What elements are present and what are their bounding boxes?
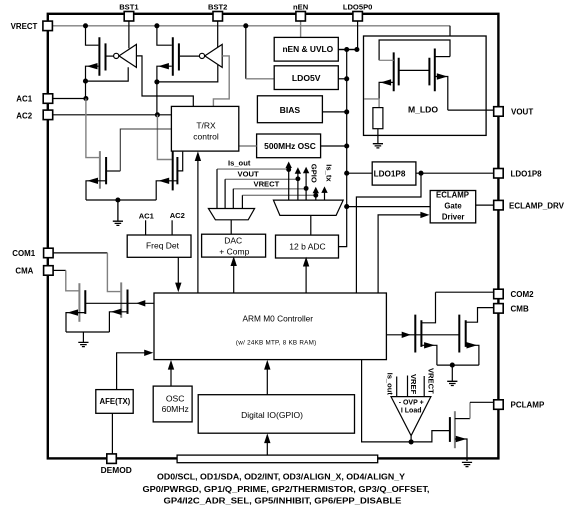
block DAC + Comp bbox=[202, 234, 266, 257]
wire OSC60 to ARM arrow bbox=[170, 365, 172, 386]
wire arrow A4 GPIO bbox=[315, 191, 317, 201]
transistor Q3 low-side AC1 FET bbox=[86, 151, 156, 200]
wire ARM to DAC arrow bbox=[233, 262, 235, 293]
svg-text:LDO1P8: LDO1P8 bbox=[374, 169, 406, 178]
node LDO1P8 out bbox=[418, 171, 423, 176]
wire AC2 bbox=[52, 114, 171, 116]
wire Q2 source to U2 rail bbox=[157, 65, 218, 82]
arrow into TRX bbox=[195, 151, 201, 161]
pin LDO1P8 bbox=[494, 169, 504, 179]
svg-text:LDO5V: LDO5V bbox=[292, 73, 321, 83]
wire ARM to COM2/CMB gates bbox=[386, 334, 459, 336]
node pair2 ground bbox=[450, 363, 455, 368]
ground pair bbox=[78, 342, 88, 346]
transistor Q5 M_LDO pass FET left bbox=[379, 52, 429, 99]
wire pair drains to ARM bbox=[85, 302, 154, 304]
svg-text:VRECT: VRECT bbox=[11, 22, 38, 31]
wire M_LDO feedback gray bbox=[364, 99, 379, 108]
wire LDO5P0 drop bbox=[338, 21, 357, 50]
svg-text:AFE(TX): AFE(TX) bbox=[100, 397, 131, 406]
wire Q1 source to U1 rail bbox=[86, 67, 129, 81]
wire Q2 source to AC2 bbox=[156, 82, 158, 115]
pin ECLAMP_DRV bbox=[494, 200, 504, 210]
wire arrow A1 bbox=[288, 165, 290, 200]
transistor Q4 low-side AC2 FET bbox=[156, 152, 183, 201]
svg-text:500MHz OSC: 500MHz OSC bbox=[264, 141, 316, 151]
wire R1 to ground bbox=[377, 129, 379, 144]
pin AC1 bbox=[43, 94, 53, 104]
wire DigIO to ARM arrow bbox=[266, 365, 268, 395]
block LDO1P8 bbox=[372, 162, 416, 185]
block AFE(TX) bbox=[96, 390, 133, 414]
block 500MHz OSC bbox=[257, 134, 321, 158]
block T/RX control bbox=[171, 106, 238, 151]
wire FreqDet stub1 bbox=[145, 220, 147, 235]
wire UVLO to bus bbox=[338, 49, 357, 51]
node comparator output bbox=[409, 439, 414, 444]
arrow Q1 source bbox=[87, 63, 98, 69]
mux2 trapezoid bbox=[273, 200, 343, 215]
svg-text:AC2: AC2 bbox=[16, 111, 32, 120]
pin BST2 bbox=[213, 12, 223, 22]
transistor Q2 high-side AC2 FET bbox=[157, 26, 200, 82]
pin PCLAMP bbox=[494, 400, 504, 410]
node bus-UVLO bbox=[344, 47, 349, 52]
svg-text:CMA: CMA bbox=[15, 267, 33, 276]
block BIAS bbox=[257, 96, 322, 123]
svg-text:Gate: Gate bbox=[444, 201, 462, 210]
wire CMA to Q7 gate gray bbox=[66, 270, 79, 290]
svg-text:Is_out: Is_out bbox=[228, 159, 251, 168]
wire VRECT rail bbox=[52, 25, 450, 27]
node bus-LDO5V bbox=[344, 76, 349, 81]
node AC1 bbox=[83, 96, 88, 101]
wire AC1 bbox=[52, 98, 86, 100]
wire U2 input to TRX gray bbox=[213, 56, 229, 107]
wire U3 input stub2 bbox=[407, 376, 409, 397]
wire COM1 bbox=[52, 252, 107, 254]
svg-text:DAC: DAC bbox=[224, 236, 242, 246]
block ECLAMP Gate Driver bbox=[430, 191, 476, 223]
arrow Q10 source bbox=[467, 342, 478, 348]
svg-text:DEMOD: DEMOD bbox=[101, 465, 132, 475]
ground PCLAMP bbox=[462, 462, 472, 466]
arrow on ARM drive line bbox=[136, 300, 145, 306]
wire U3 input stub1 bbox=[396, 377, 398, 397]
wire mux2 out to ADC bbox=[310, 215, 312, 235]
svg-text:12 b ADC: 12 b ADC bbox=[289, 242, 325, 252]
wire COM1 to Q8 gate gray bbox=[107, 253, 120, 292]
wire U3 output stem bbox=[410, 436, 412, 442]
block LDO5V bbox=[274, 66, 338, 90]
wire Q9 drain to COM2 pin bbox=[436, 291, 495, 293]
wire mux1 out to DAC bbox=[230, 220, 232, 235]
wire Is_out line bbox=[217, 168, 289, 170]
transistor Q10 CMB FET bbox=[459, 308, 494, 366]
svg-text:ECLAMP: ECLAMP bbox=[436, 191, 469, 200]
ground pair2 bbox=[447, 381, 457, 385]
svg-text:ARM M0 Controller: ARM M0 Controller bbox=[243, 314, 314, 324]
block Freq Det bbox=[127, 235, 191, 257]
transistor Q8 COM1 FET bbox=[109, 282, 127, 332]
svg-text:Freq Det: Freq Det bbox=[146, 240, 180, 250]
svg-text:LDO1P8: LDO1P8 bbox=[511, 169, 543, 178]
wire bus bar to DigIO arrow bbox=[266, 439, 268, 456]
svg-text:- OVP +: - OVP + bbox=[399, 399, 424, 406]
wire U1 input to TRX bbox=[136, 56, 193, 107]
svg-text:BST2: BST2 bbox=[208, 3, 227, 12]
svg-text:AC1: AC1 bbox=[139, 212, 155, 221]
wire AFE to DEMOD bbox=[111, 413, 113, 454]
pin BST1 bbox=[124, 12, 134, 22]
wire node to PCLAMP gate bbox=[411, 431, 449, 442]
svg-text:Digital IO(GPIO): Digital IO(GPIO) bbox=[241, 410, 303, 420]
wire nEN drop bbox=[300, 21, 302, 37]
svg-text:I Load: I Load bbox=[401, 408, 422, 415]
wire GPIO line bbox=[242, 194, 315, 196]
wire arrow A2 bbox=[297, 171, 299, 200]
wire LDO5V to bus bbox=[338, 78, 346, 80]
svg-text:VRECT: VRECT bbox=[254, 180, 280, 189]
node VRECT-leg2 bbox=[154, 23, 159, 28]
wire arrow A3 bbox=[305, 171, 307, 201]
pin CMB bbox=[494, 304, 504, 314]
node Q1 source bbox=[83, 79, 88, 84]
arrow Q9 source bbox=[424, 342, 435, 348]
arrow into ARM from AFE bbox=[144, 350, 153, 356]
pin DEMOD bbox=[107, 454, 117, 464]
node bus-OSC bbox=[344, 143, 349, 148]
pin AC2 bbox=[43, 110, 53, 120]
block OSC 60MHz bbox=[153, 386, 192, 422]
wire ARM to TRX arrow bbox=[197, 158, 199, 294]
ground bridge bbox=[113, 200, 123, 225]
arrow Q2 source bbox=[158, 63, 169, 69]
ground M_LDO bbox=[373, 144, 383, 148]
wire Q3 drain sense to TRX bbox=[120, 129, 171, 171]
node bus-ECLAMP bbox=[344, 204, 349, 209]
wire ARM to ECLAMP arrow bbox=[378, 215, 424, 293]
svg-text:BST1: BST1 bbox=[119, 3, 139, 12]
wire M_LDO out to VOUT bbox=[448, 109, 494, 111]
arrow Q7 source bbox=[67, 309, 78, 315]
pin nEN bbox=[296, 12, 306, 22]
svg-text:M_LDO: M_LDO bbox=[408, 104, 438, 114]
svg-text:+ Comp: + Comp bbox=[219, 247, 249, 257]
arrow Q5 source bbox=[380, 79, 391, 85]
wire Q11 drain riser gray bbox=[469, 402, 471, 418]
svg-text:nEN & UVLO: nEN & UVLO bbox=[282, 44, 333, 54]
svg-text:VRECT: VRECT bbox=[426, 368, 435, 394]
arrow Q3 source bbox=[87, 178, 98, 184]
wire pair2 source rail bbox=[437, 364, 479, 366]
wire VOUT line bbox=[225, 178, 298, 180]
block Digital IO(GPIO) bbox=[198, 395, 354, 434]
svg-text:GPIO: GPIO bbox=[310, 164, 319, 183]
wire BIAS to bus bbox=[322, 111, 346, 113]
wire Q1 source to AC1 bbox=[85, 81, 87, 98]
svg-text:Is_tx: Is_tx bbox=[324, 164, 333, 182]
svg-text:60MHz: 60MHz bbox=[162, 404, 189, 414]
svg-text:VREF: VREF bbox=[409, 374, 418, 395]
wire ARM to comparator node bbox=[362, 360, 412, 442]
svg-text:T/RX: T/RX bbox=[196, 120, 216, 130]
node bus-LDO5P0 bbox=[354, 47, 359, 52]
wire FreqDet stub2 bbox=[171, 220, 173, 235]
node bus-BIAS bbox=[344, 109, 349, 114]
transistor Q7 CMA FET bbox=[66, 283, 85, 332]
wire AC2 to Q4 gate gray bbox=[157, 115, 172, 160]
svg-text:(w/ 24KB MTP, 8 KB RAM): (w/ 24KB MTP, 8 KB RAM) bbox=[236, 339, 317, 346]
arrow into ARM from FreqDet bbox=[175, 283, 181, 293]
wire AC1 to Q3 gate gray bbox=[86, 99, 99, 158]
wire VRECT drop into M_LDO bbox=[436, 26, 450, 57]
wire bus to LDO1P8 bbox=[347, 172, 373, 174]
arrow Q8 source bbox=[111, 309, 122, 315]
svg-text:GP0/PWRGD, GP1/Q_PRIME, GP2/TH: GP0/PWRGD, GP1/Q_PRIME, GP2/THERMISTOR, … bbox=[143, 484, 430, 494]
wire FreqDet to ARM bbox=[177, 257, 179, 286]
arrow Q11 source bbox=[456, 436, 467, 442]
wire arrow A5 Is_tx bbox=[324, 190, 326, 200]
node AC2 bbox=[155, 112, 160, 117]
block nEN & UVLO bbox=[274, 37, 338, 61]
svg-text:AC1: AC1 bbox=[16, 95, 32, 104]
block ARM M0 Controller bbox=[154, 293, 386, 360]
node bus-LDO1P8 bbox=[344, 171, 349, 176]
wire mux1 input drops bbox=[217, 169, 242, 208]
op-amp gate driver U2 bbox=[199, 44, 222, 67]
wire VRECT feed to LDO5V bbox=[245, 26, 247, 79]
pin LDO5P0 bbox=[353, 12, 363, 22]
wire OSC to bus bbox=[321, 145, 347, 147]
wire LDO1P8 to pin bbox=[416, 172, 494, 174]
node Q2 source bbox=[154, 79, 159, 84]
GPIO bus bar bbox=[177, 455, 378, 463]
svg-text:VOUT: VOUT bbox=[511, 108, 533, 117]
pin CMA bbox=[44, 266, 54, 276]
svg-text:ECLAMP_DRV: ECLAMP_DRV bbox=[509, 202, 565, 211]
wire gray stub into LDO5V left bbox=[246, 78, 274, 80]
arrow Q6 source bbox=[437, 73, 448, 79]
node bridge ground bbox=[115, 197, 120, 202]
resistor R1 bbox=[373, 108, 383, 129]
wire TRX to OSC bbox=[239, 145, 257, 147]
svg-text:COM2: COM2 bbox=[511, 290, 535, 299]
wire ARM to ADC arrow bbox=[305, 262, 307, 293]
svg-text:AC2: AC2 bbox=[170, 211, 185, 220]
wire BST1 to driver bbox=[128, 21, 130, 48]
ground pair stem bbox=[82, 332, 84, 342]
wire AFE to ARM arrow bbox=[117, 353, 148, 390]
wire ECLAMP to pin bbox=[476, 204, 494, 206]
svg-text:GP4/I2C_ADR_SEL, GP5/INHIBIT,: GP4/I2C_ADR_SEL, GP5/INHIBIT, GP6/EPP_DI… bbox=[164, 496, 402, 506]
svg-text:control: control bbox=[193, 132, 219, 142]
wire U3 input stub3 bbox=[423, 376, 425, 397]
wire CMA bbox=[52, 269, 65, 271]
svg-text:PCLAMP: PCLAMP bbox=[511, 401, 545, 410]
transistor Q11 PCLAMP FET bbox=[450, 411, 470, 461]
wire pair source rail bbox=[66, 331, 109, 333]
svg-text:LDO5P0: LDO5P0 bbox=[343, 3, 373, 12]
svg-text:COM1: COM1 bbox=[12, 249, 35, 258]
ground pair2 stem bbox=[451, 365, 453, 381]
pin VRECT bbox=[43, 21, 53, 31]
arrow into ECLAMP bbox=[420, 212, 429, 218]
transistor Q6 M_LDO pass FET right bbox=[429, 49, 450, 111]
node VRECT-LDO5V bbox=[243, 23, 248, 28]
svg-text:OSC: OSC bbox=[166, 394, 185, 404]
block 12b ADC bbox=[276, 235, 339, 258]
wire Q11 drain to PCLAMP pin bbox=[470, 401, 496, 403]
svg-text:Is_out: Is_out bbox=[385, 373, 394, 396]
svg-text:VOUT: VOUT bbox=[238, 170, 259, 179]
svg-text:nEN: nEN bbox=[293, 3, 308, 12]
wire LDO1P8 loop to ARM bbox=[356, 173, 421, 293]
wire bus to ECLAMP bbox=[347, 206, 431, 208]
pin COM1 bbox=[44, 248, 54, 258]
transistor Q1 high-side AC1 FET bbox=[86, 26, 114, 81]
arrow Q4 source bbox=[159, 178, 170, 184]
pin VOUT bbox=[494, 107, 504, 117]
wire vertical bus bbox=[339, 50, 347, 247]
pin COM2 bbox=[494, 289, 504, 299]
wire BST2 to driver bbox=[217, 21, 219, 48]
svg-text:OD0/SCL, OD1/SDA, OD2/INT, OD3: OD0/SCL, OD1/SDA, OD2/INT, OD3/ALIGN_X, … bbox=[157, 472, 405, 482]
block M_LDO bbox=[364, 36, 487, 135]
arrow on gate line bbox=[402, 332, 411, 338]
svg-text:CMB: CMB bbox=[511, 305, 529, 314]
chip outer border bbox=[48, 14, 499, 459]
node VRECT-leg1 bbox=[83, 23, 88, 28]
svg-text:BIAS: BIAS bbox=[280, 105, 301, 115]
wire M_LDO gate rail bbox=[379, 40, 450, 60]
op-amp gate driver U1 bbox=[114, 44, 137, 67]
transistor Q9 COM2 FET bbox=[415, 292, 437, 365]
comparator U3 OVP bbox=[391, 397, 431, 436]
svg-text:Driver: Driver bbox=[442, 213, 465, 222]
mux1 trapezoid bbox=[208, 209, 254, 220]
wire VRECT line bbox=[233, 188, 306, 190]
